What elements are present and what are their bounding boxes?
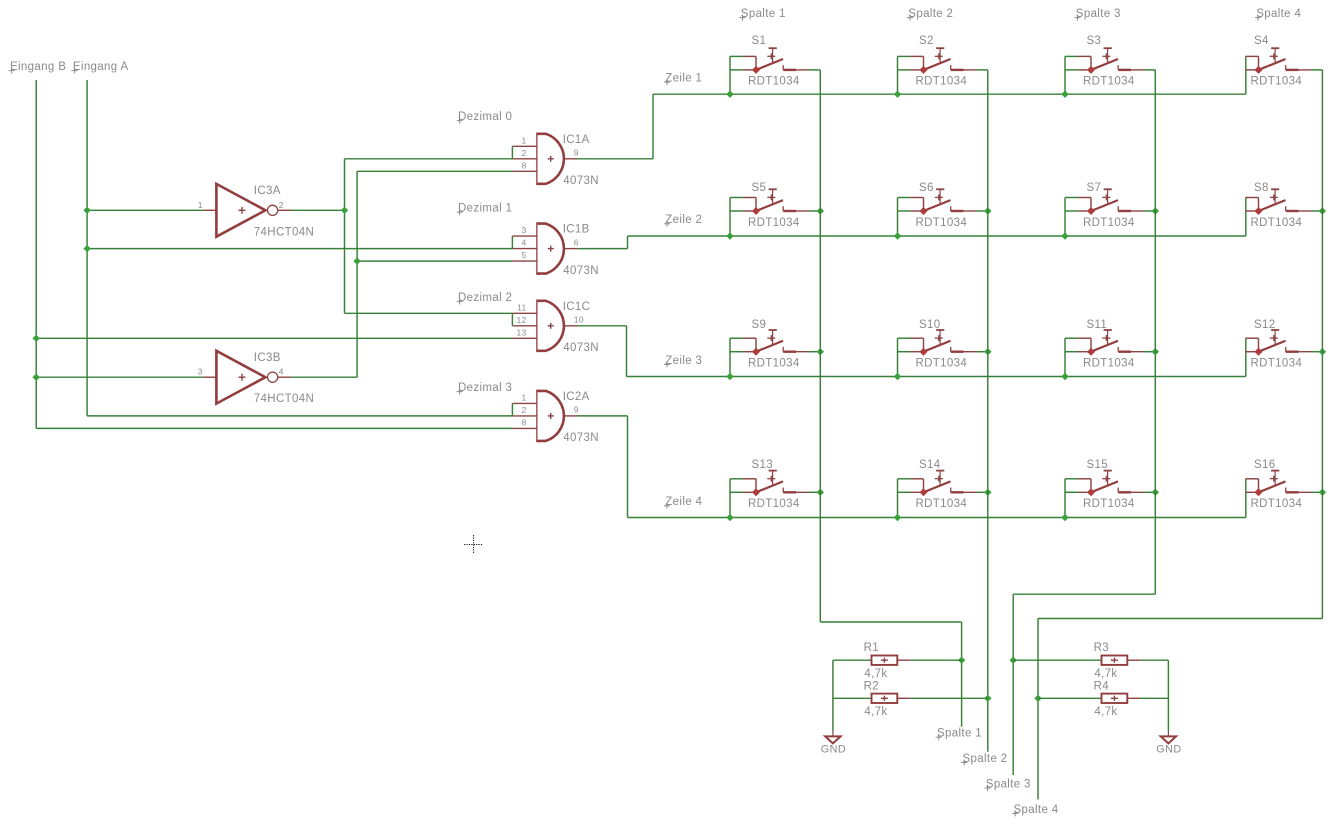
svg-text:4,7k: 4,7k	[864, 706, 887, 718]
svg-text:S9: S9	[752, 319, 767, 331]
svg-text:Spalte 4: Spalte 4	[1014, 804, 1059, 816]
svg-text:R1: R1	[864, 642, 879, 654]
svg-text:S11: S11	[1087, 319, 1108, 331]
svg-text:IC1C: IC1C	[563, 301, 591, 313]
svg-text:Spalte 1: Spalte 1	[741, 8, 786, 20]
svg-text:RDT1034: RDT1034	[1251, 76, 1303, 88]
svg-text:S14: S14	[919, 459, 941, 471]
svg-text:Spalte 3: Spalte 3	[1076, 8, 1121, 20]
svg-text:Eingang B: Eingang B	[10, 61, 66, 73]
svg-text:IC1B: IC1B	[563, 224, 590, 236]
svg-text:RDT1034: RDT1034	[1083, 217, 1135, 229]
svg-text:Spalte 4: Spalte 4	[1256, 8, 1301, 20]
svg-text:Spalte 3: Spalte 3	[986, 778, 1031, 790]
svg-text:S3: S3	[1087, 35, 1102, 47]
svg-text:S16: S16	[1254, 459, 1276, 471]
svg-text:4073N: 4073N	[563, 342, 599, 354]
svg-text:2: 2	[521, 148, 526, 158]
svg-text:Spalte 2: Spalte 2	[963, 753, 1008, 765]
svg-text:Zeile 3: Zeile 3	[665, 355, 702, 367]
svg-text:S6: S6	[919, 182, 934, 194]
svg-text:Zeile 2: Zeile 2	[665, 214, 702, 226]
svg-text:IC2A: IC2A	[563, 391, 590, 403]
svg-text:RDT1034: RDT1034	[748, 498, 800, 510]
svg-text:13: 13	[516, 327, 526, 337]
svg-text:GND: GND	[821, 743, 847, 755]
svg-text:RDT1034: RDT1034	[1251, 358, 1303, 370]
svg-text:4,7k: 4,7k	[1094, 706, 1117, 718]
svg-text:8: 8	[521, 417, 526, 427]
svg-text:4073N: 4073N	[563, 432, 599, 444]
svg-text:S15: S15	[1087, 459, 1109, 471]
svg-text:RDT1034: RDT1034	[1251, 217, 1303, 229]
svg-text:9: 9	[574, 148, 579, 158]
svg-text:Dezimal 2: Dezimal 2	[458, 292, 512, 304]
svg-text:RDT1034: RDT1034	[1083, 76, 1135, 88]
svg-text:9: 9	[574, 405, 579, 415]
svg-text:1: 1	[198, 200, 203, 210]
svg-text:R2: R2	[864, 680, 879, 692]
svg-text:RDT1034: RDT1034	[748, 217, 800, 229]
svg-text:4: 4	[279, 367, 284, 377]
svg-text:12: 12	[516, 315, 526, 325]
svg-text:RDT1034: RDT1034	[748, 76, 800, 88]
svg-text:RDT1034: RDT1034	[916, 76, 968, 88]
svg-text:IC3B: IC3B	[254, 352, 281, 364]
svg-text:R4: R4	[1094, 680, 1110, 692]
svg-text:1: 1	[521, 135, 526, 145]
svg-text:Zeile 1: Zeile 1	[665, 73, 702, 85]
svg-text:3: 3	[521, 225, 526, 235]
svg-text:RDT1034: RDT1034	[1083, 358, 1135, 370]
svg-text:S2: S2	[919, 35, 934, 47]
svg-text:S7: S7	[1087, 182, 1102, 194]
svg-text:10: 10	[574, 315, 584, 325]
svg-text:Dezimal 1: Dezimal 1	[458, 203, 512, 215]
svg-text:11: 11	[517, 302, 526, 312]
svg-text:S5: S5	[752, 182, 767, 194]
svg-text:4073N: 4073N	[563, 175, 599, 187]
svg-text:4,7k: 4,7k	[1094, 668, 1117, 680]
svg-text:S13: S13	[752, 459, 774, 471]
svg-text:5: 5	[521, 250, 526, 260]
svg-text:Zeile 4: Zeile 4	[665, 496, 702, 508]
svg-text:RDT1034: RDT1034	[1251, 498, 1303, 510]
svg-text:Eingang A: Eingang A	[73, 61, 129, 73]
svg-text:RDT1034: RDT1034	[1083, 498, 1135, 510]
svg-text:RDT1034: RDT1034	[916, 217, 968, 229]
svg-text:Dezimal 3: Dezimal 3	[458, 382, 512, 394]
svg-text:S12: S12	[1254, 319, 1276, 331]
svg-text:6: 6	[574, 237, 579, 247]
svg-text:S4: S4	[1254, 35, 1269, 47]
svg-text:R3: R3	[1094, 642, 1109, 654]
svg-text:RDT1034: RDT1034	[916, 498, 968, 510]
svg-text:4: 4	[521, 238, 526, 248]
svg-text:Spalte 2: Spalte 2	[908, 8, 953, 20]
svg-text:3: 3	[198, 367, 203, 377]
svg-text:S10: S10	[919, 319, 941, 331]
svg-text:S1: S1	[752, 35, 767, 47]
svg-text:74HCT04N: 74HCT04N	[254, 226, 314, 238]
svg-text:RDT1034: RDT1034	[916, 358, 968, 370]
svg-text:Dezimal 0: Dezimal 0	[458, 111, 512, 123]
svg-text:IC1A: IC1A	[563, 134, 590, 146]
svg-text:RDT1034: RDT1034	[748, 358, 800, 370]
svg-text:S8: S8	[1254, 182, 1269, 194]
svg-text:2: 2	[521, 405, 526, 415]
svg-text:4073N: 4073N	[563, 265, 599, 277]
svg-text:1: 1	[521, 392, 526, 402]
svg-text:GND: GND	[1156, 743, 1182, 755]
svg-text:IC3A: IC3A	[254, 185, 281, 197]
svg-text:Spalte 1: Spalte 1	[937, 728, 982, 740]
svg-text:74HCT04N: 74HCT04N	[254, 393, 314, 405]
svg-text:8: 8	[521, 160, 526, 170]
svg-text:2: 2	[279, 200, 284, 210]
svg-text:4,7k: 4,7k	[864, 668, 887, 680]
